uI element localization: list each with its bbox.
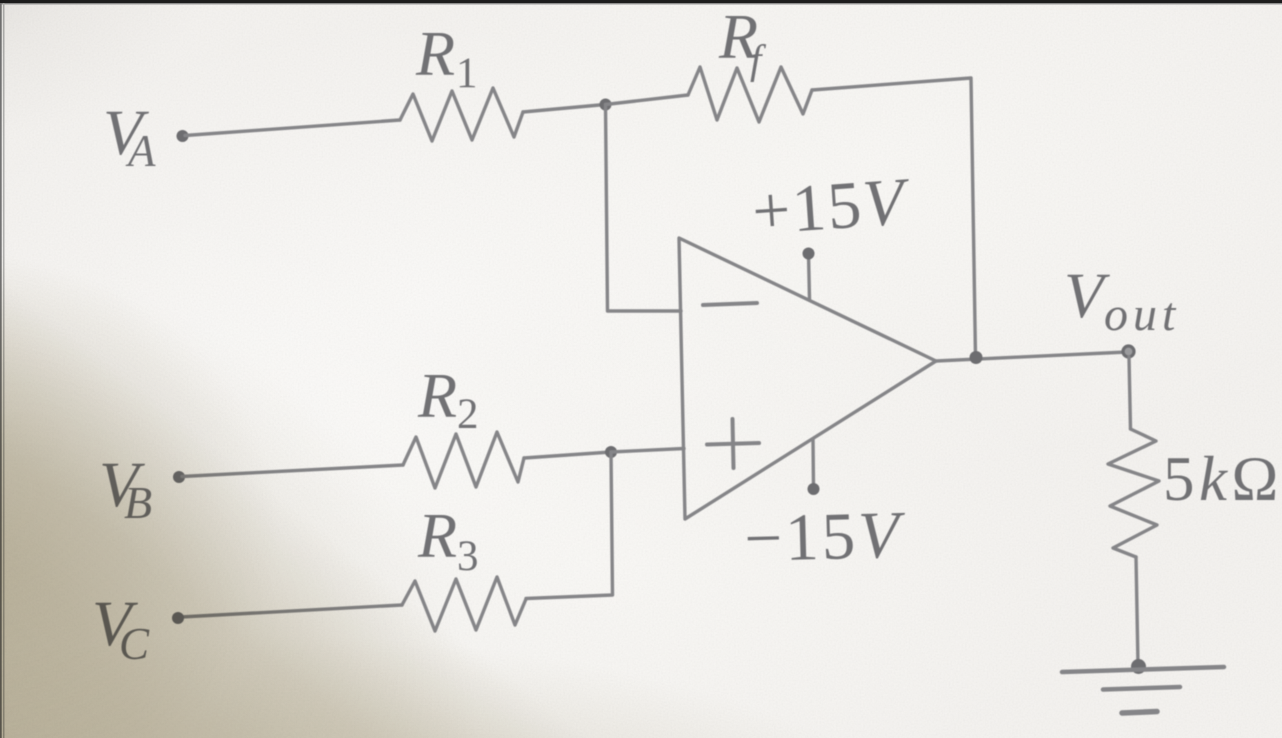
ground symbol	[1062, 667, 1224, 713]
node B: non-inverting summing junction	[605, 446, 617, 458]
svg-text:3: 3	[457, 533, 479, 580]
label 5kOhm	[1163, 444, 1282, 514]
label Vout	[1064, 260, 1180, 341]
wire 5k resistor to ground	[1136, 557, 1138, 665]
wire Rf to feedback corner and down to output node	[812, 78, 976, 357]
svg-text:2: 2	[457, 391, 479, 438]
label Rf	[718, 1, 767, 82]
resistor R2	[403, 432, 524, 488]
op-amp inverting input (-) mark	[703, 303, 757, 305]
label VB	[99, 449, 152, 528]
wire Vout down to 5k resistor	[1129, 357, 1131, 429]
wire -15V supply stub	[811, 439, 815, 488]
wire +15V supply stub	[809, 254, 810, 299]
node: +15V supply terminal	[803, 248, 815, 260]
node: VB input terminal	[173, 471, 185, 483]
svg-text:−15V: −15V	[743, 498, 907, 576]
wire VB to R2	[182, 465, 403, 477]
wire node A down and to inverting input	[606, 105, 682, 312]
node: Vout terminal (open dot)	[1123, 346, 1134, 357]
svg-text:out: out	[1104, 288, 1180, 341]
wire node B down to R3	[526, 452, 613, 599]
node: VC input terminal	[172, 612, 184, 624]
svg-text:+15V: +15V	[750, 164, 914, 249]
op-amp non-inverting input (+) mark	[707, 419, 759, 468]
svg-text:R: R	[415, 18, 455, 89]
label -15V	[743, 498, 907, 576]
node: -15V supply terminal	[808, 483, 820, 495]
resistor R3	[402, 577, 526, 631]
label R2	[417, 360, 479, 438]
svg-text:5kΩ: 5kΩ	[1163, 444, 1282, 514]
svg-text:C: C	[119, 619, 150, 669]
label VA	[103, 97, 156, 176]
label R3	[417, 500, 479, 580]
label R1	[415, 18, 478, 97]
svg-text:R: R	[417, 500, 457, 571]
node: output feedback junction	[970, 351, 983, 364]
wire R1 to node A	[523, 105, 605, 113]
wire op-amp output to Vout terminal	[936, 352, 1127, 361]
op-amp U1 triangle	[679, 238, 936, 519]
wire node A to Rf	[606, 95, 689, 105]
svg-text:1: 1	[456, 50, 478, 97]
resistor R1	[400, 88, 523, 141]
svg-text:B: B	[124, 477, 152, 528]
wire VA to R1	[185, 120, 400, 136]
node A: inverting summing junction	[600, 99, 612, 111]
resistor Rf	[688, 67, 812, 122]
svg-text:A: A	[125, 126, 156, 176]
wire R3 to VC	[181, 605, 402, 617]
wire R2 to node B	[524, 452, 611, 458]
node: ground junction	[1131, 659, 1146, 674]
label VC	[92, 588, 150, 669]
wire node B to non-inverting input	[611, 449, 684, 453]
node: VA input terminal	[177, 130, 189, 142]
svg-text:R: R	[417, 360, 457, 431]
resistor RL 5k (vertical)	[1108, 429, 1159, 557]
label +15V	[750, 164, 914, 249]
